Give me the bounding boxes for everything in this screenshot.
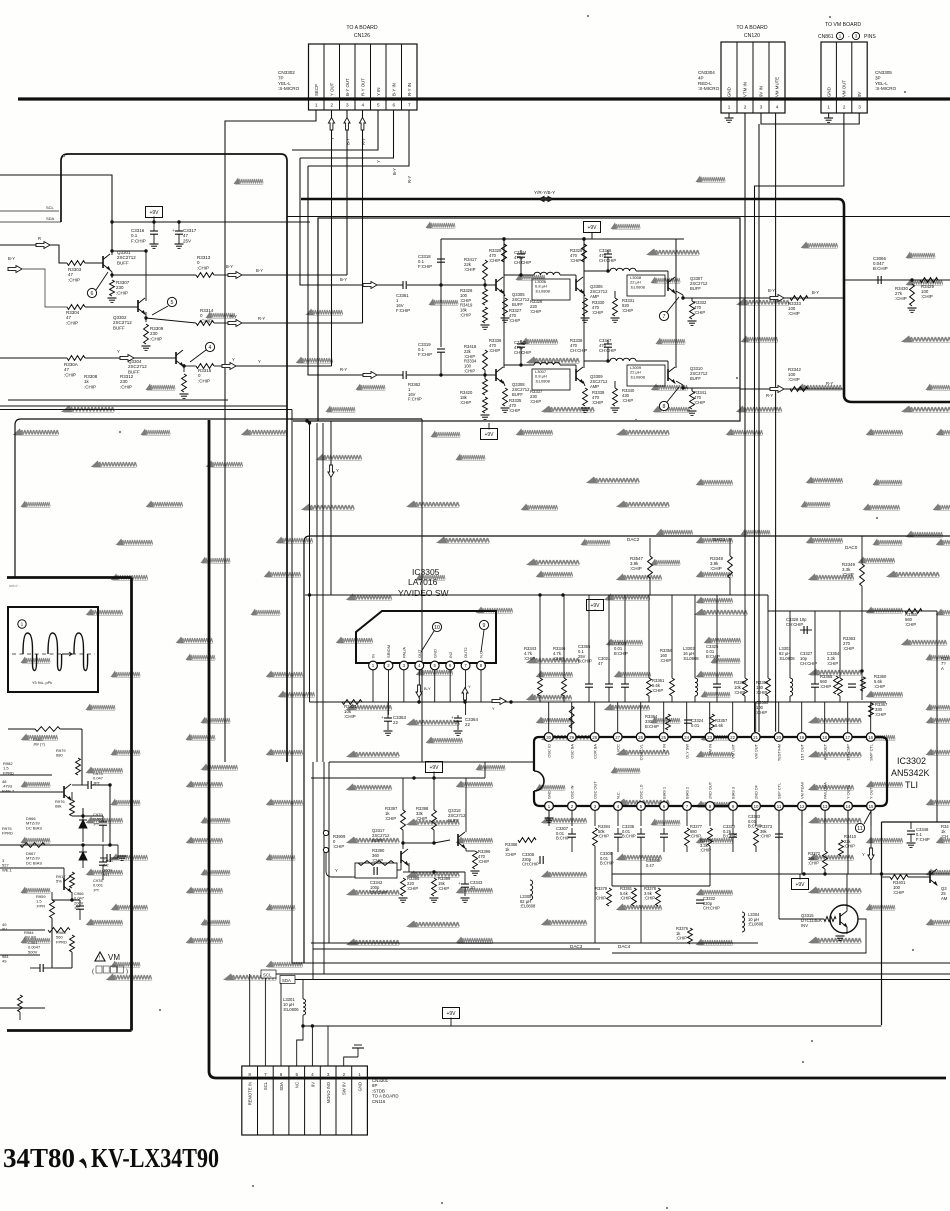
svg-text::CHIP: :CHIP <box>694 310 705 315</box>
svg-text:YEL-L: YEL-L <box>875 81 888 86</box>
svg-text:R: R <box>38 236 41 241</box>
node 6 callout <box>87 288 96 297</box>
wire pin13 to R3372 <box>824 810 826 851</box>
transistor Q3310 <box>667 369 669 381</box>
svg-text:22: 22 <box>730 735 735 740</box>
svg-text:0.47: 0.47 <box>646 863 655 868</box>
svg-text:AMP: AMP <box>590 294 599 299</box>
svg-text::CHIP: :CHIP <box>895 296 907 301</box>
svg-text:B-Y: B-Y <box>424 686 431 691</box>
svg-text:+9V: +9V <box>587 225 597 231</box>
resistor R3307 <box>110 280 115 296</box>
wire B-Y to output <box>112 274 196 276</box>
resistor R3367 <box>869 702 888 717</box>
arrow Y OUT <box>328 118 334 131</box>
connector CN3301 TO A BOARD CN116 <box>242 1066 368 1135</box>
svg-text:Y5 fVo- pPk: Y5 fVo- pPk <box>32 681 52 685</box>
wire riser x308 to R-Y amp input <box>308 166 363 375</box>
svg-text:COR LVL: COR LVL <box>638 743 643 760</box>
svg-text:3: 3 <box>858 105 861 110</box>
arrow R input <box>36 242 50 249</box>
svg-text::CHIP: :CHIP <box>756 710 767 715</box>
svg-text:5%: 5% <box>56 879 62 884</box>
svg-text:Y OUT: Y OUT <box>329 82 334 96</box>
capacitor C966 <box>74 891 85 920</box>
capacitor C3363 <box>384 717 392 719</box>
svg-text:): ) <box>126 969 128 975</box>
wire base B-Y <box>441 284 496 286</box>
wire CN861 9V drop <box>758 124 760 732</box>
svg-text::EL0808: :EL0808 <box>630 284 646 289</box>
resistor R3399b <box>430 876 452 902</box>
resistor R985 <box>56 930 74 952</box>
transistor right edge <box>929 871 931 883</box>
svg-text:24: 24 <box>684 735 689 740</box>
svg-text:B-Y: B-Y <box>8 256 15 261</box>
wire VM Q2 wiring <box>63 868 65 878</box>
capacitor C3330 <box>723 824 737 852</box>
svg-text:2: 2 <box>843 105 846 110</box>
wire rail drop right <box>484 762 486 778</box>
arrow Y out <box>214 365 222 367</box>
wire base R-Y <box>441 374 496 376</box>
power +9V mid <box>481 429 498 440</box>
svg-text::EL0806: :EL0806 <box>283 1007 299 1012</box>
inductor L R-Y 2 <box>610 358 636 361</box>
resistor R3401 <box>890 875 908 895</box>
inductor L3308 <box>520 880 536 909</box>
svg-text:DC BIAS: DC BIAS <box>26 860 42 865</box>
resistor R3358 <box>734 595 747 702</box>
svg-text::CHIP: :CHIP <box>734 690 745 695</box>
wire Q3304 emitter <box>183 364 185 372</box>
wire to Q3304 base <box>134 357 176 359</box>
resistor bias stack R-Y <box>483 379 488 395</box>
svg-text:6: 6 <box>91 291 94 297</box>
wire riser x324 <box>323 762 325 974</box>
wire CN861 pin2 VM OUT route <box>755 113 844 732</box>
label SCL <box>261 970 276 978</box>
svg-text:(: ( <box>92 969 94 975</box>
svg-text:SCL: SCL <box>263 973 272 978</box>
svg-text:8: 8 <box>248 1072 251 1077</box>
svg-text:DAC4: DAC4 <box>618 944 631 949</box>
wire Q3318 emitter <box>465 848 467 851</box>
capacitor C3364 <box>454 717 462 719</box>
svg-text:34T80: 34T80 <box>3 1143 75 1173</box>
svg-text::CHIP: :CHIP <box>598 834 609 839</box>
wire right box top <box>882 821 950 823</box>
svg-text:BIAS 2: BIAS 2 <box>685 787 690 799</box>
resistor R3363 <box>838 611 856 702</box>
svg-text:6: 6 <box>392 103 395 108</box>
svg-text::EL0808: :EL0808 <box>535 288 551 293</box>
svg-text::CHIP: :CHIP <box>116 290 128 295</box>
R-Y amplifier row <box>340 237 697 419</box>
svg-text:B-Y OUT: B-Y OUT <box>345 78 350 96</box>
resistor R3313 <box>196 273 214 278</box>
svg-text:DLY SW: DLY SW <box>684 744 689 759</box>
capacitor C3022 <box>614 595 629 702</box>
svg-text:SDA: SDA <box>282 978 291 983</box>
svg-text::CHIP: :CHIP <box>652 688 663 693</box>
svg-text:Y/R-Y/B-Y: Y/R-Y/B-Y <box>534 190 555 195</box>
wire pin4 riser <box>297 1026 303 1066</box>
svg-text::CHIP: :CHIP <box>553 656 564 661</box>
power +9V Q3317 section <box>426 762 443 773</box>
svg-text:4: 4 <box>361 103 364 108</box>
wire CN126 pin1 to lower board <box>225 110 316 762</box>
inductor L B-Y 2 <box>610 268 636 271</box>
svg-text::CHIP: :CHIP <box>64 372 76 377</box>
arrow Y buffer input <box>85 357 120 359</box>
svg-text:REMOTE IN: REMOTE IN <box>247 1082 252 1105</box>
svg-text:CN120: CN120 <box>744 33 760 39</box>
svg-text:2: 2 <box>343 1072 346 1077</box>
wire collector Q3310 <box>675 239 677 368</box>
svg-text:B-Y IN: B-Y IN <box>391 83 396 96</box>
svg-text:CN861: CN861 <box>818 34 834 40</box>
svg-text::EL0808: :EL0808 <box>520 904 536 909</box>
svg-text:19: 19 <box>799 735 804 740</box>
svg-text:+: + <box>172 228 175 233</box>
svg-text:5: 5 <box>171 300 174 306</box>
svg-text:7: 7 <box>408 103 411 108</box>
svg-text:4P: 4P <box>698 75 704 80</box>
svg-text:1ST CMP: 1ST CMP <box>845 744 850 761</box>
svg-text:7: 7 <box>264 1072 267 1077</box>
svg-text:R-Y: R-Y <box>407 176 412 183</box>
svg-text:10: 10 <box>434 625 440 631</box>
svg-text:BUFF: BUFF <box>512 302 523 307</box>
svg-text:17: 17 <box>845 735 850 740</box>
resistor R984 <box>24 928 70 940</box>
svg-text:DAC1: DAC1 <box>713 537 726 542</box>
wire VM diode ties <box>72 815 103 817</box>
svg-text:JPT: JPT <box>93 780 101 785</box>
wire top-right branch <box>845 279 950 281</box>
svg-text:R-Y: R-Y <box>826 381 833 386</box>
node 7 callout <box>659 311 668 320</box>
svg-text:PINS: PINS <box>864 34 876 40</box>
wire interstage 1 R-Y <box>504 364 534 366</box>
ground IC3302 pin1 <box>548 810 550 818</box>
svg-text:IC3305: IC3305 <box>412 567 440 577</box>
wire B-Y output to VM trunk <box>740 297 844 299</box>
svg-text:PA/LUMA: PA/LUMA <box>823 782 828 799</box>
svg-text:WE.1: WE.1 <box>2 867 13 872</box>
svg-text::CHIP: :CHIP <box>524 656 535 661</box>
svg-text:VM MUTE: VM MUTE <box>775 77 780 97</box>
resistor emitter Q3306 <box>583 291 585 296</box>
svg-text::CHIP: :CHIP <box>530 309 541 314</box>
svg-text::CHIP: :CHIP <box>150 336 162 341</box>
svg-text:AM: AM <box>941 896 948 901</box>
svg-text:OSC IN: OSC IN <box>570 785 575 799</box>
svg-text:Y: Y <box>862 852 865 857</box>
svg-text:GND: GND <box>727 87 732 97</box>
svg-text:Y: Y <box>336 468 339 473</box>
svg-text:VM OUT: VM OUT <box>753 743 758 759</box>
wire pin12 to rail <box>801 810 803 874</box>
svg-text:F:CHIP: F:CHIP <box>916 837 930 842</box>
wire Q3317 box top <box>329 761 534 763</box>
wire Y arrow to rail <box>870 861 872 874</box>
ground CN3301 pin1 <box>352 1045 364 1057</box>
wire pin14 to rail <box>847 810 849 874</box>
wire interstage 2 B-Y <box>584 270 610 272</box>
svg-text:1: 1 <box>315 103 318 108</box>
svg-text:CH:CHIP: CH:CHIP <box>599 258 616 263</box>
resistor R3304 <box>67 305 85 310</box>
wire bus pair left <box>0 405 287 407</box>
svg-text::CHIP: :CHIP <box>68 277 80 282</box>
node 5 callout <box>167 297 176 306</box>
svg-text:6: 6 <box>280 1072 283 1077</box>
svg-text:R-Y: R-Y <box>766 393 773 398</box>
wire Q3318 collector <box>465 778 467 832</box>
svg-text:0.01: 0.01 <box>691 723 700 728</box>
svg-text:+9V: +9V <box>484 432 494 438</box>
capacitor C3306 <box>600 828 622 866</box>
svg-text:FPRD: FPRD <box>56 939 67 944</box>
svg-text:+: + <box>451 715 454 720</box>
wire 2ND OUT link <box>612 885 710 887</box>
wire R3304 to Q3302 base <box>85 306 138 308</box>
wire Y/R-Y/B-Y trunk to VM box <box>301 199 950 402</box>
svg-text:9V: 9V <box>857 92 862 97</box>
resistor R3346 <box>553 595 566 702</box>
svg-text:VM: VM <box>108 953 120 962</box>
svg-text:1: 1 <box>21 622 24 628</box>
svg-text:5.6k: 5.6k <box>715 723 724 728</box>
svg-text:BUFF: BUFF <box>512 392 523 397</box>
transistor Q3305 <box>495 279 497 291</box>
resistor R3303 <box>67 261 85 266</box>
wire interstage 1 B-Y <box>504 274 534 276</box>
svg-text::CHIP: :CHIP <box>344 714 356 719</box>
wire RC to Q3317 base <box>397 869 401 871</box>
svg-text::CHIP: :CHIP <box>489 258 500 263</box>
arrow Y/R-Y/B-Y <box>539 196 553 201</box>
wire DAC0 <box>861 536 863 564</box>
capacitor C input R-Y <box>377 374 403 376</box>
svg-text:22: 22 <box>393 720 398 725</box>
IC U3305 LA7016 Y/VIDEO SW <box>356 567 496 670</box>
svg-text::CHIP: :CHIP <box>84 384 96 389</box>
svg-text::CHIP: :CHIP <box>570 258 581 263</box>
svg-text::CHIP: :CHIP <box>788 377 800 382</box>
svg-text::CHIP: :CHIP <box>620 896 631 901</box>
power rail +9V top-left <box>146 207 163 218</box>
svg-text:B:CHIP: B:CHIP <box>578 659 592 664</box>
wire Q3317 collector to base Q3318 <box>402 830 404 849</box>
arrow R-Y output <box>770 386 784 393</box>
resistor above Q3306 <box>582 244 587 262</box>
svg-text:22: 22 <box>465 722 470 727</box>
svg-text::CHIP: :CHIP <box>808 861 819 866</box>
svg-text::CHIP: :CHIP <box>478 859 489 864</box>
svg-text:Y: Y <box>335 868 338 873</box>
wire riser x317 <box>316 423 318 762</box>
svg-text:28: 28 <box>592 735 597 740</box>
wire pin1 ground <box>344 1057 358 1066</box>
svg-text:0V: 0V <box>2 927 7 932</box>
svg-text::CHIP: :CHIP <box>197 265 209 270</box>
svg-text:20: 20 <box>776 735 781 740</box>
capacitor C3326 top bridge <box>786 617 812 634</box>
svg-text:+9V: +9V <box>446 1011 456 1017</box>
svg-text:OSC LD: OSC LD <box>639 784 644 799</box>
wire R input <box>0 244 36 246</box>
svg-text:F:CHIP: F:CHIP <box>408 397 422 402</box>
wire Q3302 collector <box>145 295 147 301</box>
resistor R3366 <box>861 674 887 691</box>
wire base right transistor <box>882 876 891 878</box>
resistor emitter Q3310 <box>690 391 695 409</box>
resistor R3381 <box>620 886 636 906</box>
svg-text:SW 9V: SW 9V <box>342 1082 347 1095</box>
svg-text:Y: Y <box>330 137 335 140</box>
svg-text:VM PEAK: VM PEAK <box>800 781 805 799</box>
svg-text::CHIP: :CHIP <box>875 712 886 717</box>
svg-text::CHIP: :CHIP <box>592 310 603 315</box>
svg-text::CHIP: :CHIP <box>66 320 78 325</box>
resistor R3377 <box>685 824 703 852</box>
arrow B-Y bidirectional at IC3305 <box>416 685 422 698</box>
svg-text:2ND DF: 2ND DF <box>754 784 759 799</box>
svg-text:IN2: IN2 <box>448 651 453 658</box>
capacitor branch Q3306 <box>604 253 612 255</box>
arrow Y right <box>492 698 506 705</box>
wire DAC3 riser <box>594 852 596 943</box>
svg-text:680: 680 <box>56 753 63 758</box>
resistor R3378 <box>644 886 660 906</box>
wire IC3305 pin wires <box>372 670 374 702</box>
capacitor branch Q3308 <box>517 343 525 345</box>
svg-text:18: 18 <box>822 735 827 740</box>
svg-text::CHIP: :CHIP <box>509 408 520 413</box>
svg-text:OUT2: OUT2 <box>463 647 468 658</box>
wire 9V bracket <box>761 113 859 124</box>
connector CN126 TO A BOARD <box>309 25 418 110</box>
capacitor C3327 <box>800 611 819 702</box>
arrow B-Y out <box>214 274 228 276</box>
wire interstage 2 R-Y <box>584 360 610 362</box>
svg-text:FPRD: FPRD <box>3 770 14 775</box>
svg-text:B:CHIP: B:CHIP <box>723 834 737 839</box>
svg-text:1: 1 <box>358 1072 361 1077</box>
wire B-Y to CN126 <box>242 274 347 276</box>
resistor R3309 <box>144 324 149 344</box>
wire Q3315 out <box>612 919 866 953</box>
svg-text::CHIP: :CHIP <box>788 311 800 316</box>
svg-text:BUFF: BUFF <box>690 376 701 381</box>
model title KV-LX34T80 / KV-LX34T90 <box>3 1143 219 1173</box>
svg-text::CHIP: :CHIP <box>820 684 831 689</box>
transistor Q3315 DTC114EK <box>801 905 858 933</box>
svg-text:RED-L: RED-L <box>698 81 712 86</box>
svg-text:Y OUT2: Y OUT2 <box>846 785 851 799</box>
resistor R3547 <box>648 556 653 578</box>
svg-text:9: 9 <box>483 623 486 629</box>
svg-text:F:CHIP: F:CHIP <box>418 264 432 269</box>
resistor R959 <box>36 892 54 930</box>
svg-text:CN3302: CN3302 <box>278 70 295 75</box>
svg-text::CHIP: :CHIP <box>710 566 722 571</box>
svg-text::EL0808: :EL0808 <box>535 378 551 383</box>
svg-text::CHIP: :CHIP <box>630 566 642 571</box>
svg-text:11: 11 <box>777 804 782 809</box>
svg-text::CHIP: :CHIP <box>700 848 711 853</box>
svg-text:3: 3 <box>346 103 349 108</box>
wire riser x309 <box>309 423 311 702</box>
svg-text:BUFF: BUFF <box>372 838 383 843</box>
resistor R3397 <box>385 806 405 830</box>
svg-text:CH:CHIP: CH:CHIP <box>599 348 616 353</box>
inductor L3304 <box>742 912 764 932</box>
wire risers Q3317 box <box>402 778 404 810</box>
transistor Q3318 <box>457 834 459 846</box>
wire riser connector pin7 <box>264 978 266 1066</box>
svg-text:9V: 9V <box>310 1082 315 1087</box>
svg-text:BUFF: BUFF <box>690 286 701 291</box>
svg-text:Y: Y <box>258 359 261 364</box>
ground CN861 pin1 <box>828 113 830 118</box>
resistor R3417 B-Y <box>483 260 488 280</box>
svg-text:SEP CTL: SEP CTL <box>777 782 782 799</box>
svg-text::CHIP: :CHIP <box>756 690 767 695</box>
svg-text:3P: 3P <box>875 75 881 80</box>
transistor Q3317 <box>400 851 402 863</box>
wire Y drop arrow <box>330 421 332 595</box>
svg-text:F:CHIP: F:CHIP <box>131 238 146 243</box>
resistor emitter2 Q3306 <box>613 298 618 316</box>
wire emitter out Q3307 <box>676 291 683 295</box>
svg-text:Y IN: Y IN <box>376 88 381 96</box>
IC U3302 AN5342K TLI <box>534 733 930 811</box>
VM modulation box <box>7 578 132 1031</box>
scan specks (decorative) <box>587 15 589 17</box>
capacitor C3334 <box>827 651 856 687</box>
capacitor C3348 <box>907 822 930 847</box>
capacitor C961 <box>28 940 55 972</box>
arrow B-Y output <box>770 295 784 302</box>
capacitor C3343 <box>458 872 483 902</box>
wire pins to components above IC3302 <box>548 702 550 733</box>
wire amplifier box bottom extension <box>293 420 318 422</box>
svg-text:16: 16 <box>868 735 873 740</box>
svg-text:/HT: /HT <box>103 872 110 877</box>
svg-text:NC: NC <box>295 1082 300 1088</box>
svg-text:TO A BOARD: TO A BOARD <box>736 25 768 31</box>
B-Y amplifier row <box>340 237 697 329</box>
wire pin3 riser <box>311 1026 313 1066</box>
wire collector Q3306 <box>583 239 585 278</box>
svg-text:BUFF: BUFF <box>113 325 125 330</box>
svg-text:OSC BA: OSC BA <box>569 744 574 759</box>
svg-text:14: 14 <box>846 804 851 809</box>
svg-text::CHIP: :CHIP <box>416 816 427 821</box>
resistor R3379 <box>595 886 611 906</box>
svg-text:1: 1 <box>728 105 731 110</box>
resistor R976 <box>55 792 74 816</box>
capacitor C3318 branch B-Y <box>440 239 442 257</box>
svg-text:OUT: OUT <box>417 649 422 658</box>
resistor R3343 <box>524 595 542 702</box>
svg-text::EL0808: :EL0808 <box>630 374 646 379</box>
svg-text:LA7016: LA7016 <box>408 577 438 587</box>
